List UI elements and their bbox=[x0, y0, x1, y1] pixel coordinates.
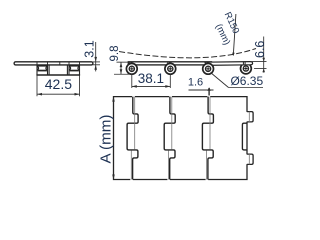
plan view: joint 1 gap lines bbox=[131, 97, 134, 180]
dimension 1.6 bbox=[189, 88, 214, 97]
svg-text:1.6: 1.6 bbox=[188, 76, 203, 88]
end view: right hinge barrel bbox=[69, 65, 80, 71]
svg-text:9.8: 9.8 bbox=[109, 46, 121, 62]
plan view: joint 3 gap lines bbox=[207, 97, 210, 180]
dimension 6.6 bbox=[252, 37, 267, 73]
side view: pin 1 bbox=[126, 63, 137, 74]
dimension A (mm) bbox=[112, 97, 115, 102]
plan view: link gap breaks in top and bottom edges bbox=[130, 96, 210, 181]
svg-text:A (mm): A (mm) bbox=[98, 115, 115, 164]
end view: knuckle edge ticks on plate bbox=[37, 62, 80, 65]
plan view: joint 1 meander bbox=[127, 97, 138, 180]
end view: hinge outline bbox=[36, 65, 80, 75]
plan view: joint 2 meander bbox=[164, 97, 175, 180]
svg-text:38.1: 38.1 bbox=[138, 71, 164, 86]
side view: plate gap marks bbox=[129, 62, 245, 65]
svg-text:42.5: 42.5 bbox=[45, 76, 72, 92]
plan view: right cut link recess bbox=[242, 123, 247, 150]
svg-text:3.1: 3.1 bbox=[82, 40, 96, 57]
dimension 42.5 bbox=[37, 76, 80, 97]
plan view: chain outline bbox=[114, 97, 254, 180]
backflex radius dashed arc bbox=[119, 49, 256, 58]
side view: straight plate band bbox=[128, 62, 211, 75]
svg-text:6.6: 6.6 bbox=[253, 41, 267, 58]
svg-text:Ø6.35: Ø6.35 bbox=[230, 74, 263, 88]
side view: pin 2 bbox=[165, 63, 176, 74]
dimension 3.1 bbox=[93, 42, 100, 71]
plan view: joint 3 meander bbox=[202, 97, 213, 180]
plan view: right cut gap lines bbox=[248, 112, 250, 165]
side view: tilted end plate bbox=[204, 62, 253, 66]
R150 leader line bbox=[233, 14, 236, 56]
label Ø6.35 with leader bbox=[211, 73, 264, 88]
dimension 38.1 bbox=[132, 75, 171, 89]
end view: left hinge barrel bbox=[37, 65, 48, 71]
side view: pin 4 bbox=[241, 63, 252, 74]
end view: slat plate bbox=[14, 62, 93, 65]
dimension 9.8 bbox=[114, 62, 132, 74]
plan view: joint 2 gap lines bbox=[168, 97, 171, 180]
side view: pin 3 bbox=[203, 63, 214, 74]
